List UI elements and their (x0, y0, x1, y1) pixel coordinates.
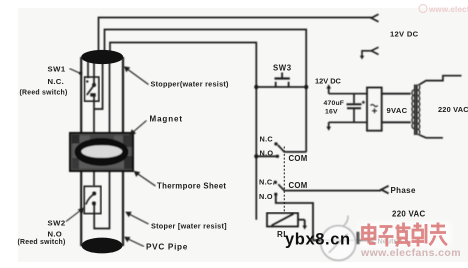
char 4 shao (414, 225, 422, 228)
char 3 fa (397, 225, 400, 232)
char 2 zi (380, 225, 393, 228)
stopper (black cap) on pipe top (82, 50, 123, 63)
svg-text:220 VAC: 220 VAC (438, 105, 468, 114)
primary left winding (412, 90, 414, 129)
svg-text:PVC Pipe: PVC Pipe (146, 243, 188, 252)
+12V up arrow (328, 87, 330, 94)
Thermpore pointer (134, 171, 156, 186)
Stoper pointer (125, 212, 148, 224)
SW3 pushbutton (254, 73, 308, 90)
char 1 dian (363, 228, 376, 240)
rectifier U1 box (367, 88, 411, 131)
SW1 pointer line (70, 69, 82, 75)
svg-text:N.O: N.O (259, 192, 273, 201)
svg-text:470uF: 470uF (324, 100, 345, 107)
reed switch SW2 box (84, 186, 101, 213)
svg-text:www.elecfans.com: www.elecfans.com (360, 247, 461, 259)
svg-text:www.elecfans.com: www.elecfans.com (428, 5, 468, 14)
capacitor C1 470uF (353, 94, 355, 104)
svg-text:Magnet: Magnet (150, 115, 183, 124)
svg-text:SW3: SW3 (273, 64, 292, 73)
bottom supply rail (329, 121, 367, 123)
svg-text:COM: COM (289, 181, 308, 190)
connector arrow J2 with down stub (360, 47, 379, 59)
connector arrow J1 (12V DC) (371, 14, 378, 21)
Phase connector arrow (381, 186, 388, 194)
top supply rail (329, 93, 367, 95)
svg-text:N.C: N.C (260, 135, 274, 144)
svg-text:N.O: N.O (260, 149, 274, 158)
svg-text:ybx8.cn: ybx8.cn (285, 231, 351, 249)
contact arm 2 (278, 184, 284, 191)
wire W3 pipe top to left rail (110, 43, 256, 220)
svg-text:N.C.: N.C. (259, 178, 275, 187)
svg-text:12V DC: 12V DC (315, 77, 342, 86)
watermark logo circle (321, 216, 360, 261)
Neutral connector arrow and label (under watermark) (369, 237, 376, 244)
svg-text:16V: 16V (325, 109, 338, 116)
wire from stopper to SW1 fixed contact (87, 60, 89, 78)
mechanical linkage dashed line (283, 147, 285, 214)
0V down arrow (328, 122, 330, 128)
SW2 pointer arrow (66, 208, 84, 222)
char 5 you (431, 225, 445, 228)
N.O2 wire to neutral line (276, 194, 369, 240)
wire W2 pipe top to COM1 rail (105, 30, 307, 153)
svg-text:Stopper(water resist): Stopper(water resist) (151, 80, 230, 89)
svg-text:N.C.: N.C. (48, 77, 65, 86)
mains wires (420, 76, 462, 85)
reed switch SW1 box (85, 77, 99, 101)
PVC pipe right wall (122, 57, 124, 246)
svg-text:N.O: N.O (48, 230, 63, 239)
svg-text:12V DC: 12V DC (390, 30, 419, 39)
COM2 wire to Phase (285, 190, 381, 192)
Stopper pointer arrow (124, 66, 149, 84)
wire W1 pipe top to 12V DC connector (99, 18, 372, 55)
svg-text:COM: COM (289, 154, 308, 163)
svg-text:(Reed switch): (Reed switch) (18, 239, 66, 246)
N.O1 stub wire (256, 155, 277, 157)
wire SW1 bottom down to elbow (93, 96, 95, 187)
watermark red chinese characters (359, 222, 451, 248)
svg-text:Phase: Phase (391, 186, 416, 195)
elbow wire joining third conductor (94, 60, 103, 109)
svg-text:Stoper [water resist]: Stoper [water resist] (151, 222, 227, 231)
faint corner watermark top-right (419, 5, 427, 13)
Magnet pointer (130, 121, 147, 136)
svg-text:9VAC: 9VAC (387, 106, 408, 115)
PVC pointer (124, 237, 144, 247)
secondary right winding (418, 85, 420, 135)
svg-text:Thermpore Sheet: Thermpore Sheet (157, 182, 226, 191)
wires rectifier to transformer (382, 93, 411, 95)
transformer T1 (412, 76, 462, 138)
svg-text:SW1: SW1 (48, 65, 66, 74)
core (414, 85, 416, 136)
magnet assembly (thermopore sheet block) (70, 133, 133, 171)
relay contact set 2 (274, 181, 389, 241)
PVC pipe left wall (80, 57, 82, 246)
svg-text:SW2: SW2 (48, 219, 66, 228)
wire SW2 bottom to U loop (94, 60, 109, 229)
COM1 wire (285, 151, 307, 153)
relay coil RL (267, 213, 307, 230)
relay contact set 1 (254, 142, 306, 158)
svg-text:220 VAC: 220 VAC (392, 210, 426, 219)
magnet ring (75, 138, 129, 166)
SW2 contact symbol (92, 192, 96, 196)
svg-text:(Reed switch): (Reed switch) (20, 90, 68, 97)
SW1 contact symbol (86, 80, 88, 82)
wire from stopper into SW1 top (93, 60, 95, 84)
PVC pipe bottom cap (81, 238, 122, 254)
contact arm 1 (278, 145, 285, 152)
